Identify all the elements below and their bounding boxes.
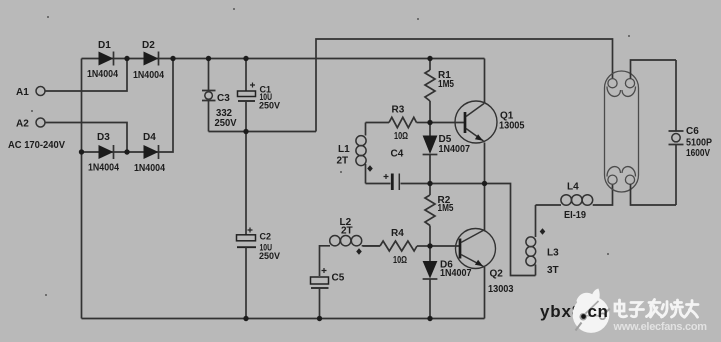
phase dot L2	[356, 248, 362, 254]
svg-text:1N4004: 1N4004	[133, 70, 164, 81]
svg-text:R3: R3	[392, 105, 405, 116]
svg-text:1M5: 1M5	[438, 203, 454, 214]
svg-text:D3: D3	[97, 132, 110, 143]
logo chinese text 电子发烧友 (drawn strokes)	[615, 300, 698, 318]
junction R1 tap on +rail	[427, 56, 432, 61]
diode D3 1N4004	[88, 132, 119, 174]
svg-text:L3: L3	[547, 248, 559, 259]
wire A1 to D1/D2 junction	[45, 59, 127, 92]
svg-text:13003: 13003	[488, 284, 514, 295]
svg-text:1M5: 1M5	[438, 79, 454, 90]
svg-text:1N4004: 1N4004	[87, 69, 118, 80]
wire lamp top-right pin to C6	[631, 60, 677, 79]
watermark ybx8.cn	[540, 302, 582, 321]
junction D1-D2 / A1	[124, 56, 129, 61]
svg-text:Q2: Q2	[490, 269, 504, 280]
wire D3/D4 row y=152 with riser to top rail	[82, 59, 174, 153]
svg-text:250V: 250V	[259, 101, 280, 111]
svg-text:www.elecfans.com: www.elecfans.com	[613, 321, 708, 333]
capacitor C5	[311, 268, 345, 319]
wire left rail x=81.5	[81, 59, 83, 319]
terminal A1	[36, 87, 45, 96]
svg-text:2T: 2T	[337, 156, 349, 167]
wire upper rail y=39 with drop to C3/C1 bottom node and drop to lamp	[316, 39, 613, 132]
capacitor C2 10U/250V	[237, 228, 281, 319]
node Q2 base	[427, 243, 432, 248]
diode D2 1N4004	[133, 40, 164, 81]
svg-text:C4: C4	[391, 149, 404, 160]
capacitor C6 5100P/1600V	[669, 60, 713, 205]
svg-text:2T: 2T	[341, 226, 353, 237]
dust specks	[31, 8, 630, 296]
junction D6 on bottom rail	[427, 316, 432, 321]
svg-text:1N4004: 1N4004	[134, 163, 165, 174]
fluorescent lamp tube	[605, 71, 639, 192]
svg-text:13005: 13005	[499, 121, 525, 132]
junction C1/C2/C3 bottom node	[243, 129, 248, 134]
lamp bottom filament	[607, 167, 621, 177]
phase dot L1	[367, 165, 373, 171]
svg-text:A2: A2	[16, 119, 29, 130]
lamp bottom pins	[608, 175, 617, 184]
diode D4 1N4004	[134, 132, 165, 174]
diode D6 1N4007	[423, 246, 472, 319]
svg-text:C5: C5	[332, 273, 345, 284]
junction D3-D4 / A2	[124, 149, 129, 154]
svg-text:3T: 3T	[547, 265, 559, 276]
inductor L3 3T	[526, 205, 559, 276]
wire A2 to D3/D4 junction	[45, 123, 127, 153]
svg-text:1N4007: 1N4007	[440, 268, 472, 279]
svg-text:1N4004: 1N4004	[88, 163, 119, 174]
svg-text:EI-19: EI-19	[564, 210, 586, 221]
junction C2 on bottom rail	[243, 316, 248, 321]
svg-text:10Ω: 10Ω	[393, 255, 407, 266]
watermark dot and cn	[581, 314, 586, 319]
diode D1 1N4004	[87, 40, 118, 80]
svg-text:A1: A1	[16, 87, 29, 98]
inductor L2 2T	[320, 217, 381, 276]
junction C5 on bottom rail	[317, 316, 322, 321]
capacitor C3 332/250V	[202, 59, 237, 132]
svg-text:R4: R4	[391, 228, 404, 239]
svg-text:C6: C6	[686, 126, 699, 137]
node C4/D5/R2	[427, 181, 432, 186]
lamp top pins	[608, 79, 617, 88]
svg-text:C3: C3	[217, 93, 230, 104]
wire Q1 base	[430, 122, 464, 124]
wire C1 node down to C2	[245, 132, 247, 235]
svg-text:10Ω: 10Ω	[394, 131, 408, 142]
wire top rail y=58.5	[82, 58, 485, 60]
transistor Q2 13003	[456, 184, 514, 319]
junction D4 cathode riser on +rail	[170, 56, 175, 61]
resistor R4 10R	[363, 228, 430, 266]
inductor L4 EI-19	[536, 182, 613, 222]
svg-text:250V: 250V	[215, 118, 237, 129]
wire lamp bottom pins	[631, 184, 677, 205]
junction D3 anode on left rail	[79, 149, 84, 154]
node Q1 emitter / Q2 collector	[482, 181, 487, 186]
elecfans logo circle	[573, 289, 610, 333]
svg-text:D2: D2	[142, 40, 155, 51]
svg-text:1600V: 1600V	[686, 148, 710, 159]
svg-text:1N4007: 1N4007	[439, 144, 471, 155]
lamp top filament	[607, 87, 621, 97]
resistor R1 1M5	[425, 59, 454, 123]
diode D5 1N4007	[423, 123, 471, 184]
capacitor C1 10U/250V	[238, 59, 281, 132]
inductor L1 2T	[337, 123, 367, 184]
svg-text:cn: cn	[588, 302, 609, 321]
logo needle	[576, 323, 582, 331]
resistor R3 10R	[366, 105, 431, 143]
terminal A2	[36, 118, 45, 127]
svg-text:C2: C2	[260, 232, 272, 242]
wire Q2 base	[430, 245, 459, 247]
svg-text:250V: 250V	[259, 251, 280, 261]
svg-text:D4: D4	[143, 132, 156, 143]
node Q1 base	[427, 120, 432, 125]
svg-text:L4: L4	[567, 182, 579, 193]
wire C3/C1 bottom link y=131.5	[209, 131, 317, 133]
transistor Q1 13005	[455, 59, 525, 184]
capacitor C4	[366, 149, 431, 191]
junction C1 tap on +rail	[243, 56, 248, 61]
logo flame	[577, 289, 604, 311]
wire emitter row y=183.5 to L3 bottom	[430, 184, 536, 276]
resistor R2 1M5	[425, 184, 454, 247]
svg-text:D1: D1	[98, 40, 111, 51]
svg-text:5100P: 5100P	[686, 138, 712, 149]
phase dot L3	[540, 228, 546, 234]
svg-text:AC 170-240V: AC 170-240V	[8, 140, 65, 151]
svg-text:L1: L1	[338, 144, 350, 155]
junction C3 tap on +rail	[206, 56, 211, 61]
wire bottom rail y=318.5	[82, 318, 485, 320]
